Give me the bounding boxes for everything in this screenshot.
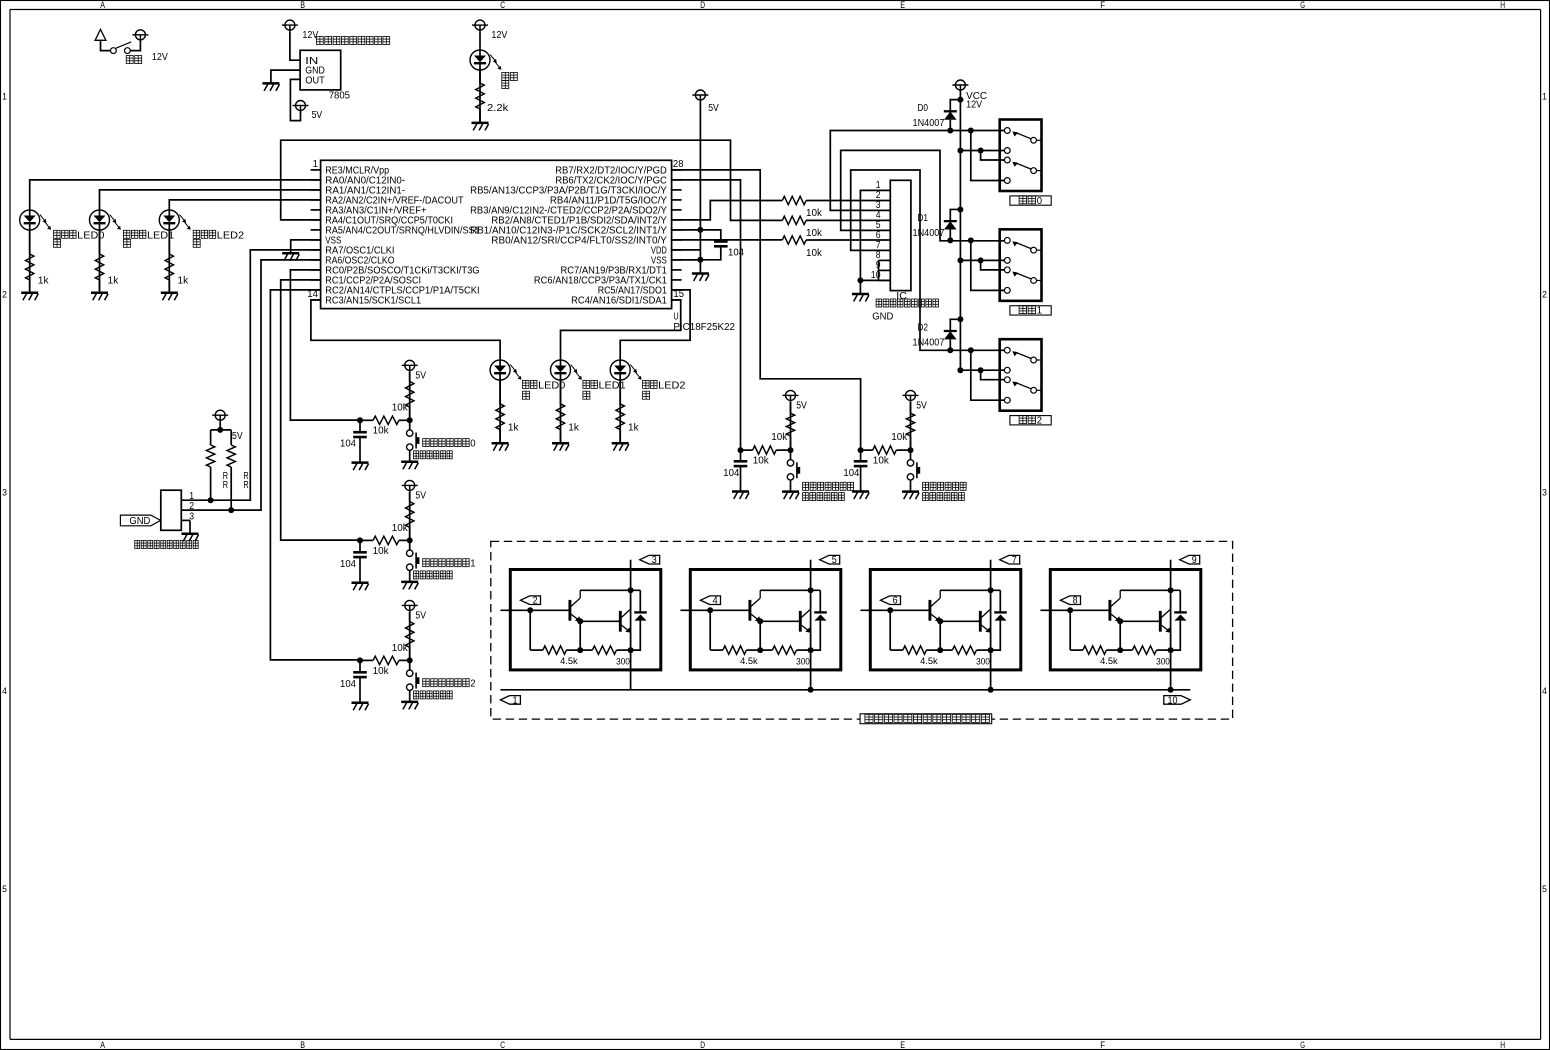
svg-text:12V: 12V	[152, 52, 168, 63]
svg-text:U: U	[673, 311, 678, 322]
svg-text:5V: 5V	[708, 103, 719, 114]
svg-text:10k: 10k	[806, 208, 823, 219]
svg-text:104: 104	[723, 468, 739, 479]
svg-text:1N4007: 1N4007	[913, 118, 945, 129]
svg-text:5V: 5V	[415, 611, 426, 622]
svg-text:H: H	[1500, 1040, 1505, 1050]
svg-text:OUT: OUT	[305, 76, 325, 87]
svg-text:B: B	[300, 0, 305, 10]
svg-text:0: 0	[1037, 196, 1043, 207]
svg-text:10k: 10k	[392, 523, 409, 534]
svg-text:4: 4	[713, 596, 718, 607]
svg-text:RC3/AN15/SCK1/SCL1: RC3/AN15/SCK1/SCL1	[325, 295, 421, 306]
svg-text:7805: 7805	[329, 90, 351, 101]
svg-text:E: E	[900, 0, 905, 10]
svg-text:10k: 10k	[373, 666, 390, 677]
svg-text:28: 28	[673, 159, 684, 170]
svg-text:LED1: LED1	[147, 230, 175, 241]
svg-text:F: F	[1100, 1040, 1105, 1050]
svg-text:1k: 1k	[568, 422, 580, 433]
svg-text:F: F	[1100, 0, 1105, 10]
svg-text:10k: 10k	[753, 456, 770, 467]
svg-text:3: 3	[652, 555, 657, 566]
svg-text:1k: 1k	[38, 275, 50, 286]
svg-text:D: D	[700, 1040, 705, 1050]
svg-text:7: 7	[1012, 555, 1017, 566]
svg-text:12V: 12V	[302, 30, 318, 41]
svg-text:1k: 1k	[628, 422, 640, 433]
svg-text:R: R	[243, 480, 248, 491]
svg-text:5V: 5V	[796, 400, 807, 411]
svg-text:B: B	[300, 1040, 305, 1050]
svg-text:H: H	[1500, 0, 1505, 10]
svg-text:10k: 10k	[771, 432, 788, 443]
svg-text:3: 3	[189, 511, 194, 522]
svg-text:10k: 10k	[392, 643, 409, 654]
svg-text:1: 1	[2, 91, 7, 101]
svg-text:R: R	[223, 480, 228, 491]
svg-text:4.5k: 4.5k	[1100, 656, 1118, 667]
svg-text:10k: 10k	[806, 248, 823, 259]
svg-text:2: 2	[1037, 416, 1043, 427]
svg-text:RB0/AN12/SRI/CCP4/FLT0/SS2/INT: RB0/AN12/SRI/CCP4/FLT0/SS2/INT0/Y	[491, 235, 667, 246]
svg-text:5V: 5V	[415, 371, 426, 382]
svg-text:5V: 5V	[916, 400, 927, 411]
svg-text:IC: IC	[896, 291, 907, 302]
svg-text:2: 2	[470, 679, 476, 690]
svg-text:1N4007: 1N4007	[913, 338, 945, 349]
svg-text:300: 300	[976, 657, 990, 668]
svg-text:4: 4	[1542, 686, 1547, 696]
svg-text:C: C	[500, 1040, 505, 1050]
svg-text:5V: 5V	[415, 491, 426, 502]
svg-text:300: 300	[796, 657, 810, 668]
svg-text:RC4/AN16/SDI1/SDA1: RC4/AN16/SDI1/SDA1	[571, 295, 667, 306]
svg-text:1: 1	[1542, 91, 1547, 101]
svg-text:D0: D0	[917, 103, 928, 114]
svg-text:6: 6	[893, 596, 898, 607]
svg-text:4: 4	[2, 686, 7, 696]
svg-text:12V: 12V	[491, 30, 507, 41]
svg-text:G: G	[1300, 0, 1305, 10]
svg-text:1k: 1k	[178, 275, 190, 286]
svg-text:300: 300	[616, 657, 630, 668]
svg-text:LED0: LED0	[538, 380, 566, 391]
svg-text:C: C	[500, 0, 505, 10]
svg-text:10: 10	[871, 270, 881, 281]
svg-text:1k: 1k	[508, 422, 520, 433]
svg-text:104: 104	[843, 468, 859, 479]
svg-text:5: 5	[2, 884, 7, 894]
svg-text:D2: D2	[917, 323, 928, 334]
svg-text:10k: 10k	[373, 546, 390, 557]
svg-text:8: 8	[1073, 596, 1078, 607]
svg-text:D1: D1	[917, 213, 928, 224]
svg-text:104: 104	[340, 679, 356, 690]
svg-text:0: 0	[470, 439, 476, 450]
svg-text:3: 3	[2, 488, 7, 498]
svg-text:LED2: LED2	[658, 380, 686, 391]
svg-text:5V: 5V	[312, 110, 323, 121]
svg-text:104: 104	[340, 439, 356, 450]
svg-text:1N4007: 1N4007	[913, 228, 945, 239]
svg-text:G: G	[1300, 1040, 1305, 1050]
svg-text:3: 3	[1542, 488, 1547, 498]
svg-text:10k: 10k	[873, 456, 890, 467]
svg-text:104: 104	[728, 247, 744, 258]
svg-text:LED1: LED1	[599, 380, 627, 391]
svg-text:GND: GND	[129, 516, 150, 527]
svg-text:12V: 12V	[966, 100, 982, 111]
svg-text:4.5k: 4.5k	[560, 656, 578, 667]
svg-text:4.5k: 4.5k	[740, 656, 758, 667]
svg-text:2: 2	[533, 596, 538, 607]
svg-text:9: 9	[1192, 555, 1197, 566]
svg-text:1: 1	[313, 159, 319, 170]
svg-text:5: 5	[832, 555, 837, 566]
svg-text:RA5/AN4/C2OUT/SRNQ/HLVDIN/SS1: RA5/AN4/C2OUT/SRNQ/HLVDIN/SS1	[325, 225, 480, 236]
svg-text:5V: 5V	[232, 431, 243, 442]
svg-text:10k: 10k	[392, 403, 409, 414]
svg-text:5: 5	[1542, 884, 1547, 894]
svg-text:10k: 10k	[891, 432, 908, 443]
svg-text:1: 1	[1037, 306, 1043, 317]
svg-text:E: E	[900, 1040, 905, 1050]
svg-text:10k: 10k	[806, 228, 823, 239]
svg-text:PIC18F25K22: PIC18F25K22	[673, 322, 735, 333]
svg-text:1: 1	[470, 559, 476, 570]
svg-text:GND: GND	[872, 312, 893, 323]
svg-text:LED0: LED0	[77, 230, 105, 241]
svg-text:LED2: LED2	[217, 230, 245, 241]
svg-text:300: 300	[1156, 657, 1170, 668]
svg-text:A: A	[100, 0, 105, 10]
svg-text:D: D	[700, 0, 705, 10]
svg-text:104: 104	[340, 559, 356, 570]
svg-text:10: 10	[1167, 695, 1177, 706]
svg-text:10k: 10k	[373, 426, 390, 437]
svg-text:1k: 1k	[108, 275, 120, 286]
svg-text:2: 2	[1542, 290, 1547, 300]
svg-text:1: 1	[513, 695, 518, 706]
svg-text:A: A	[100, 1040, 105, 1050]
svg-text:2: 2	[2, 290, 7, 300]
svg-text:2.2k: 2.2k	[487, 103, 509, 114]
svg-text:4.5k: 4.5k	[920, 656, 938, 667]
